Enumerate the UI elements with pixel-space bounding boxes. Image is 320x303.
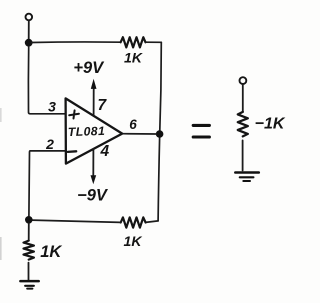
resistor R2 (bottom 1K): [121, 217, 146, 227]
svg-text:6: 6: [129, 117, 137, 132]
svg-text:7: 7: [97, 97, 107, 114]
plus input mark: [69, 110, 79, 118]
bottom wire right segment: [146, 221, 159, 223]
wire R3 to ground: [28, 263, 30, 280]
resistor R1 (top 1K): [121, 37, 146, 47]
svg-text:1K: 1K: [40, 243, 62, 261]
svg-text:4: 4: [99, 143, 109, 160]
wire node A to R1: [32, 41, 121, 44]
minus input mark: [68, 150, 77, 153]
junction node A: [25, 39, 33, 47]
resistor R3 (vertical 1K to ground): [24, 241, 34, 260]
svg-text:TL081: TL081: [68, 124, 106, 139]
equals sign: [193, 124, 209, 127]
op-amp U1 triangle: [66, 98, 123, 163]
V+ supply wire pin 7: [93, 88, 95, 115]
left rail upper (node A to pin 3): [28, 47, 65, 114]
svg-text:1K: 1K: [124, 233, 143, 249]
wire op-amp output to node: [122, 133, 156, 135]
ground symbol right: [235, 171, 258, 174]
resistor R4 (-1K): [238, 112, 248, 136]
scan artifact left edge upper: [0, 108, 2, 122]
svg-text:2: 2: [45, 136, 54, 152]
wire terminal to junction: [28, 21, 30, 39]
wire terminal to R4: [242, 85, 244, 112]
wire pin 2 to left rail lower: [29, 151, 66, 216]
junction node B: [25, 216, 33, 224]
svg-text:1K: 1K: [124, 50, 143, 66]
equivalent terminal (open circle): [240, 77, 247, 84]
svg-text:−1K: −1K: [255, 116, 286, 133]
output junction node: [156, 130, 164, 138]
svg-text:−9V: −9V: [77, 187, 109, 205]
bottom wire left segment: [32, 220, 121, 222]
V- arrowhead down: [91, 175, 97, 184]
input terminal (open circle): [26, 14, 33, 21]
svg-text:+9V: +9V: [73, 59, 105, 77]
V- supply wire pin 4: [92, 149, 94, 176]
wire R1 to top right corner: [146, 41, 162, 43]
ground symbol left: [20, 280, 38, 283]
right rail lower: [158, 134, 160, 221]
right rail upper: [160, 42, 162, 134]
svg-text:3: 3: [48, 99, 56, 115]
scan artifact left edge lower: [0, 237, 2, 260]
wire node B to R3: [28, 223, 30, 240]
V+ arrowhead up: [91, 79, 97, 89]
wire R4 to ground: [242, 140, 244, 170]
